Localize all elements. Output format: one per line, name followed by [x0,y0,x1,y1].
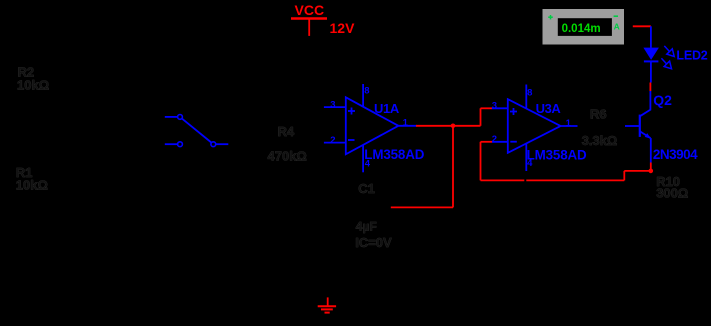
wire feedback vertical rise on right [623,171,625,181]
svg-text:A: A [614,21,620,31]
svg-text:470kΩ: 470kΩ [268,149,307,164]
svg-text:3: 3 [492,101,497,112]
svg-text:12V: 12V [330,20,356,36]
U1A pin 3 lead (non-inverting input) [324,106,346,108]
U3A pin 1 lead (output) [561,125,578,127]
switch J1 (SPDT) [165,115,229,147]
svg-text:2N3904: 2N3904 [653,147,698,162]
LED2 emission arrow 2 [661,58,666,64]
svg-text:2: 2 [492,134,497,145]
node B junction dot at Q2 emitter [649,169,654,174]
svg-text:300Ω: 300Ω [656,186,688,201]
Q2 base bar [639,115,641,137]
LED2 anode lead [650,26,652,48]
U1A minus marker [348,139,355,141]
svg-text:4µF: 4µF [356,220,377,234]
probe minus terminal marker [614,15,618,17]
transistor Q2 [625,91,698,163]
U3A pin 2 lead (inverting input) [492,141,508,143]
svg-text:10kΩ: 10kΩ [16,178,48,193]
svg-text:R6: R6 [590,106,607,121]
svg-text:8: 8 [527,87,532,98]
op-amp U3A [492,85,587,172]
svg-text:C1: C1 [358,181,375,196]
U3A plus marker [510,111,517,113]
U3A pin 4 lead (V-) [525,144,527,172]
Q2 emitter diagonal with arrow [640,131,651,138]
svg-text:IC=0V: IC=0V [355,235,392,250]
ground [318,297,336,312]
svg-text:3.3kΩ: 3.3kΩ [582,133,618,148]
svg-text:8: 8 [364,86,369,97]
op-amp U1A [324,84,425,172]
svg-text:1: 1 [403,118,409,129]
wire vertical rise to U3A pin 3 row [480,108,482,126]
wire feedback to emitter node B [624,170,651,172]
U3A minus marker [510,141,517,143]
svg-text:3: 3 [330,100,335,111]
wire node A toward U3A pin 3, horizontal run [453,125,481,127]
svg-text:U3A: U3A [536,101,562,116]
wire feedback vertical drop on left [480,142,482,181]
Q2 emitter lead [650,138,652,162]
svg-text:1: 1 [566,118,572,129]
wire left to capacitor C1 terminal [391,206,453,208]
wire Q2 emitter to node B [650,163,652,171]
Q2 base lead [625,125,640,127]
svg-text:2: 2 [330,135,335,146]
wire feedback bottom rail [481,179,625,181]
U1A pin 1 lead (output) [398,125,417,127]
LED2 cathode bar [644,60,659,62]
probe plus terminal marker [548,16,553,18]
wire probe output to LED2 anode [633,25,651,27]
current probe XMM1 (ammeter readout) [543,9,625,45]
node A junction dot at U1A output [451,124,456,129]
svg-text:U1A: U1A [374,101,400,116]
U1A pin 4 lead (V-) [362,146,364,173]
LED2 triangle [643,48,659,60]
U1A plus marker [348,110,355,112]
U1A pin 2 lead (inverting input) [324,142,346,144]
svg-text:R4: R4 [278,124,295,139]
U1A pin 8 lead (V+) [362,84,364,107]
svg-text:LM358AD: LM358AD [527,147,587,162]
Q2 collector lead [649,91,651,110]
LED2 cathode lead [650,61,652,82]
LED2 emission arrow 1 [664,46,669,52]
svg-text:0.014m: 0.014m [562,23,601,35]
svg-text:LED2: LED2 [676,49,707,63]
wire U1A output to node A [416,125,453,127]
wire crossing gap (black wire crossing over red rail) [524,179,526,182]
power symbol VCC [291,2,327,36]
svg-text:VCC: VCC [295,2,325,18]
svg-text:LM358AD: LM358AD [364,147,424,162]
LED LED2 [643,26,707,82]
wire into U3A pin 2 [481,141,493,143]
wire node A down toward capacitor C1 [452,126,454,208]
svg-text:Q2: Q2 [653,92,672,108]
wire LED2 cathode to Q2 collector [649,83,651,92]
Q2 collector diagonal [640,109,651,116]
U3A pin 3 lead (non-inverting input) [492,107,508,109]
svg-text:10kΩ: 10kΩ [17,78,49,93]
U3A pin 8 lead (V+) [525,85,527,109]
wire into U3A pin 3 [481,107,493,109]
